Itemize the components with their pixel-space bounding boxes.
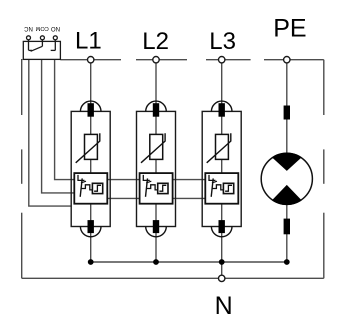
- svg-text:L3: L3: [209, 28, 236, 55]
- svg-text:NO: NO: [51, 25, 60, 31]
- svg-text:L1: L1: [75, 28, 102, 55]
- svg-text:NC: NC: [24, 25, 33, 31]
- svg-text:COM: COM: [35, 25, 48, 31]
- svg-text:L2: L2: [142, 28, 169, 55]
- svg-text:N: N: [215, 292, 233, 320]
- svg-text:PE: PE: [273, 14, 306, 42]
